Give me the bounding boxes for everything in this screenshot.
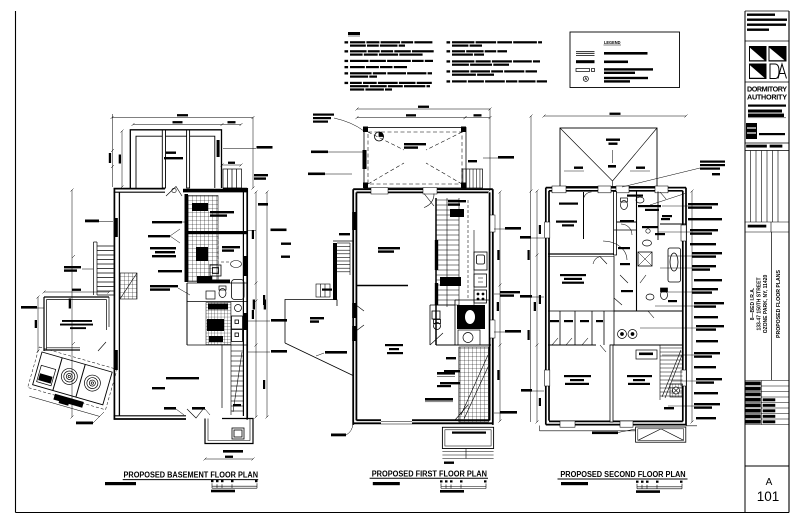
central stair band [435,198,459,345]
refrigerator square [210,265,221,276]
left wall windows [545,222,550,386]
basement left dimension extension [109,114,114,187]
laundry sink circle [235,305,242,312]
notes title [348,32,360,36]
roof overhang label [592,432,618,435]
revision table header [745,143,789,151]
closet row walls [548,256,614,345]
left labels [520,236,531,239]
left wall windows [352,212,357,230]
left room bottom wall [44,348,80,350]
shower with X [638,252,652,266]
bedroom no1 label [556,203,578,227]
basement interior thick wall at stair [185,194,189,282]
basement bathroom toilet [219,286,226,298]
see note left [21,306,37,309]
storage room label [210,211,234,217]
toilet mid [661,288,668,300]
sink oval [643,240,652,246]
legend title [604,40,622,45]
bath partition right [657,192,659,241]
top right bath fixtures [621,197,645,210]
see note 5 label [308,173,325,176]
right side notes [505,227,521,230]
svg-text:PROPOSED BASEMENT FLOOR PLAN: PROPOSED BASEMENT FLOOR PLAN [124,470,259,479]
lower stair treads [459,347,489,422]
dining room label [378,247,400,253]
basement bathroom wall [187,282,247,284]
wall y255 [548,254,614,257]
wall above stair bottom [436,344,491,346]
legend existing wall symbol [576,52,595,56]
kitchen sink [474,252,487,270]
right leader lines [640,206,696,406]
basement right envelope wall [223,188,247,420]
left wall separating laundry [186,283,188,345]
right note column [688,203,724,419]
dormitory authority logo squares [749,46,787,79]
basement bathroom sink [206,291,215,299]
legend relocated panel symbol [576,69,595,72]
top wall window gaps [371,188,437,194]
stone table 2 label [158,270,182,272]
wic label [620,220,634,222]
door marks right of patio [356,305,364,331]
porch diagonals [368,132,462,184]
porch right steps hatch [462,169,483,188]
first floor overall dimension 32'-0" [356,106,492,111]
basement right dimension chain [253,191,258,419]
sheet left border line [15,11,17,513]
linen closet [636,350,657,359]
bilco label [192,407,205,410]
see note 7 label [311,151,328,154]
room label [222,246,240,252]
first floor dimension 8'-0" [464,114,492,119]
sheet bottom border line [16,512,790,514]
kitchen fridge [474,274,487,287]
legend label relocated panel [604,68,653,74]
patio outline [285,300,353,376]
small dim 5ft [661,218,670,220]
wic door arc [584,192,592,200]
basement window left wall upper [114,218,118,237]
svg-text:A: A [766,477,773,488]
right extension [691,190,694,424]
existing label [152,387,165,389]
basement bathroom vanity [206,280,230,284]
top wall window gaps [552,186,668,193]
tilted oil tank block [25,347,117,417]
door arcs mid [603,224,632,260]
see note 3 right [498,156,514,159]
wall y345 [548,344,683,346]
svg-text:PROPOSED FLOOR PLANS: PROPOSED FLOOR PLANS [776,269,782,338]
notes column 1 [345,41,434,90]
basement garage left dimension [119,130,124,189]
basement overall dimension 32'-0" [111,114,255,119]
open to above label [152,221,182,223]
tub right [668,248,681,282]
basement main envelope left wall [114,188,119,420]
see note bottom left [331,434,346,437]
basement bathroom tub [232,280,245,300]
basement bottom wall [114,416,186,419]
basement garage door in right wall [217,140,220,157]
hall label [621,290,633,292]
sump dimension [204,456,255,461]
thermostat circle [646,229,650,233]
kitchen dashed counter [467,200,469,300]
closet door swings [552,338,588,345]
right wall windows [681,225,686,386]
sump pit square [232,428,244,439]
basement exterior stair right [223,169,242,188]
kitchen stove [474,290,487,303]
roof label [606,139,620,145]
bedroom no3 label [627,375,652,385]
graphic scale bar [211,480,258,492]
patio label [310,317,324,323]
basement dimension 24'-0" [132,121,224,126]
stair closet label [150,285,178,291]
up to grade label [254,174,268,180]
basement window right wall upper [243,256,248,276]
leader to roof notes [622,168,700,187]
interior door swings [593,192,666,352]
basement left overall dimension [69,189,74,419]
title block outer frame [745,11,789,513]
wall y311 [614,310,683,312]
right wall windows [490,215,495,338]
middle vertical wall [636,192,638,312]
revision row [745,222,789,232]
second floor envelope walls [546,188,686,426]
right dim chain label blobs [252,230,265,389]
project name vertical text [750,275,769,334]
state of new york text [748,105,786,118]
porch column circle [375,132,384,141]
second floor plan group [520,113,725,493]
room height dimension [35,296,40,353]
stair hatch box [670,384,683,397]
sheet number divider [745,465,789,467]
laundry room dashed lines and tub [218,236,242,281]
notes column 2 [447,41,548,82]
second floor left dimension chain [534,190,539,424]
basement plan group [21,114,287,492]
basement garage exterior walls [130,130,221,188]
master bedroom label [560,274,586,284]
legend box [570,32,680,88]
title block divider [745,40,789,42]
basement exterior stair left [94,242,114,295]
svg-text:LEGEND: LEGEND [604,40,621,45]
legend thermostat symbol [583,76,588,81]
basement garage interior wall 1 [162,130,165,188]
basement entry door swing [166,187,182,197]
roof outline [560,128,657,187]
sill line below [540,426,698,431]
see note right porch [500,411,517,414]
svg-text:133-47 150TH STREET: 133-47 150TH STREET [757,277,763,330]
laundry machines [232,316,243,342]
see note below tanks [76,422,93,425]
rear porch [442,427,493,448]
first floor plan group [281,106,521,493]
deck stair treads [337,243,350,275]
roof center mark [608,150,616,168]
basement bottom door swing [187,408,204,418]
basement dimension 8'-0" [221,121,243,126]
basement sump bay [205,419,253,444]
bedroom divider vertical bottom [610,345,613,422]
second floor interior extra marks [618,233,677,302]
covered porch outline [364,128,466,189]
amusement room label [150,247,176,257]
right dim chain blobs [497,250,499,380]
landing tile hatch [120,273,137,299]
second floor overall dimension 32'-0" [543,113,688,118]
garden paving label [325,351,347,354]
svg-text:8—BED I.R.A.: 8—BED I.R.A. [750,287,756,320]
porch steps [442,449,493,459]
basement stair tile hatch [188,196,218,282]
bottom wall windows [560,421,633,427]
room width dimension [43,289,111,294]
legend label thermostat [604,77,648,83]
graphic scale bar [440,480,487,492]
bath walls [617,222,687,224]
wall below laundry [187,344,247,346]
bath label cluster [627,195,661,229]
roof hips [560,128,657,187]
right extension [489,108,492,192]
left extension [530,115,533,193]
kitchen counter line [473,230,475,305]
legend new partition symbol [576,60,595,63]
second floor left outer dim [528,191,542,422]
bottom window thin lines [381,422,412,425]
stone table label [148,235,170,237]
basement stair width dimension [221,162,243,167]
graphic scale bar [636,481,683,493]
basement stair up [231,345,244,415]
equal opportunity logo [746,123,785,139]
porch piers [363,127,467,189]
bathroom panel [457,305,485,345]
hall labels [437,372,455,375]
second bath sink [646,294,654,300]
revision table columns [745,151,789,223]
stair door arc [455,405,468,420]
diagonal leader to corner [650,194,685,206]
roof interior dims [564,167,650,172]
front door swing [424,194,434,208]
stair text blobs [440,209,464,286]
svg-text:OZONE PARK, NY, 11420: OZONE PARK, NY, 11420 [763,275,769,334]
see note leaders right side [247,231,270,353]
first floor dimension 24'-0" [356,114,467,119]
title block agency name text [747,14,787,31]
bedroom 1 partition vertical [614,192,617,256]
svg-text:101: 101 [757,489,780,504]
title block vertical divider [771,232,773,380]
basement interior wall horizontal band [188,231,247,234]
svg-text:PROPOSED FIRST FLOOR PLAN: PROPOSED FIRST FLOOR PLAN [372,470,487,479]
laundry circles [618,330,638,339]
wall bathroom top [455,299,490,301]
basement window left wall lower [114,350,118,370]
ceiling height label [166,377,199,379]
kitchen label [448,200,466,206]
laundry text blobs [207,304,228,343]
first floor right dimension [497,191,502,423]
info table [745,381,789,425]
closet wall [221,345,223,408]
basement window right wall lower [243,313,248,330]
roof bay below [636,427,686,442]
first floor envelope walls [353,189,493,425]
left small labels [281,243,291,245]
svg-text:PROPOSED SECOND FLOOR PLAN: PROPOSED SECOND FLOOR PLAN [560,470,685,479]
closet labels [550,320,603,322]
basement laundry wall [187,301,247,303]
wic partition vertical [583,192,585,239]
bath label [662,215,672,217]
wd label left [64,266,81,272]
see note left wall [85,220,99,223]
existing one story room [44,297,109,351]
small steps [316,284,330,297]
legend label new partition [604,61,628,64]
basement right upper extension [252,116,255,190]
dark text blobs over hatch [192,203,212,283]
leader to see-note right of garage [223,148,256,150]
ret label [164,407,176,410]
bedroom no2 label [564,375,591,385]
legend label existing wall [604,52,648,55]
basement laundry tile hatch [206,303,231,345]
left room door swing [98,342,106,351]
basement right overall dimension [264,191,269,419]
half wall [356,285,408,287]
svg-text:AUTHORITY: AUTHORITY [747,93,787,102]
basement top wall with door opening [114,189,247,193]
second floor stair [660,345,683,400]
split face block label [313,114,334,123]
deck stair rail [333,243,337,300]
title block divider [745,81,789,83]
covered porch label [404,143,426,149]
walk in closet wall [614,229,637,231]
room label [60,320,93,329]
basement garage interior wall 2 [187,130,190,188]
living room label [385,344,403,354]
powder room [430,305,455,345]
deck top boundary [333,240,353,242]
